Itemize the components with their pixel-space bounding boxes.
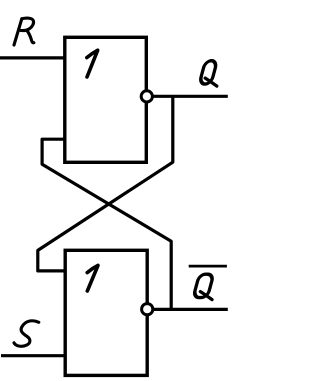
wire Q output (top): [147, 95, 228, 98]
NOR gate U1 (top) body: [65, 37, 147, 162]
label 1 (U1 function symbol): [87, 50, 98, 77]
wire: Qbar feedback to U1 input (step out of left of U1, diagonal cross, up from Qbar wire): [42, 139, 171, 309]
wire Qbar output (bottom): [147, 308, 228, 311]
overline of Qbar: [189, 265, 227, 268]
label 1 (U2 function symbol): [87, 265, 98, 291]
label S: [14, 321, 39, 347]
wire: Q feedback to U2 input (vertical drop, diagonal cross, into left of U2): [38, 96, 173, 271]
label Q: [199, 61, 217, 86]
wire S input: [1, 354, 65, 357]
inversion bubble at U1 output: [141, 91, 152, 102]
label R: [14, 18, 34, 45]
NOR gate U2 (bottom) body: [65, 250, 147, 375]
inversion bubble at U2 output: [142, 304, 153, 315]
label Qbar: [193, 274, 213, 299]
wire R input: [0, 56, 65, 59]
